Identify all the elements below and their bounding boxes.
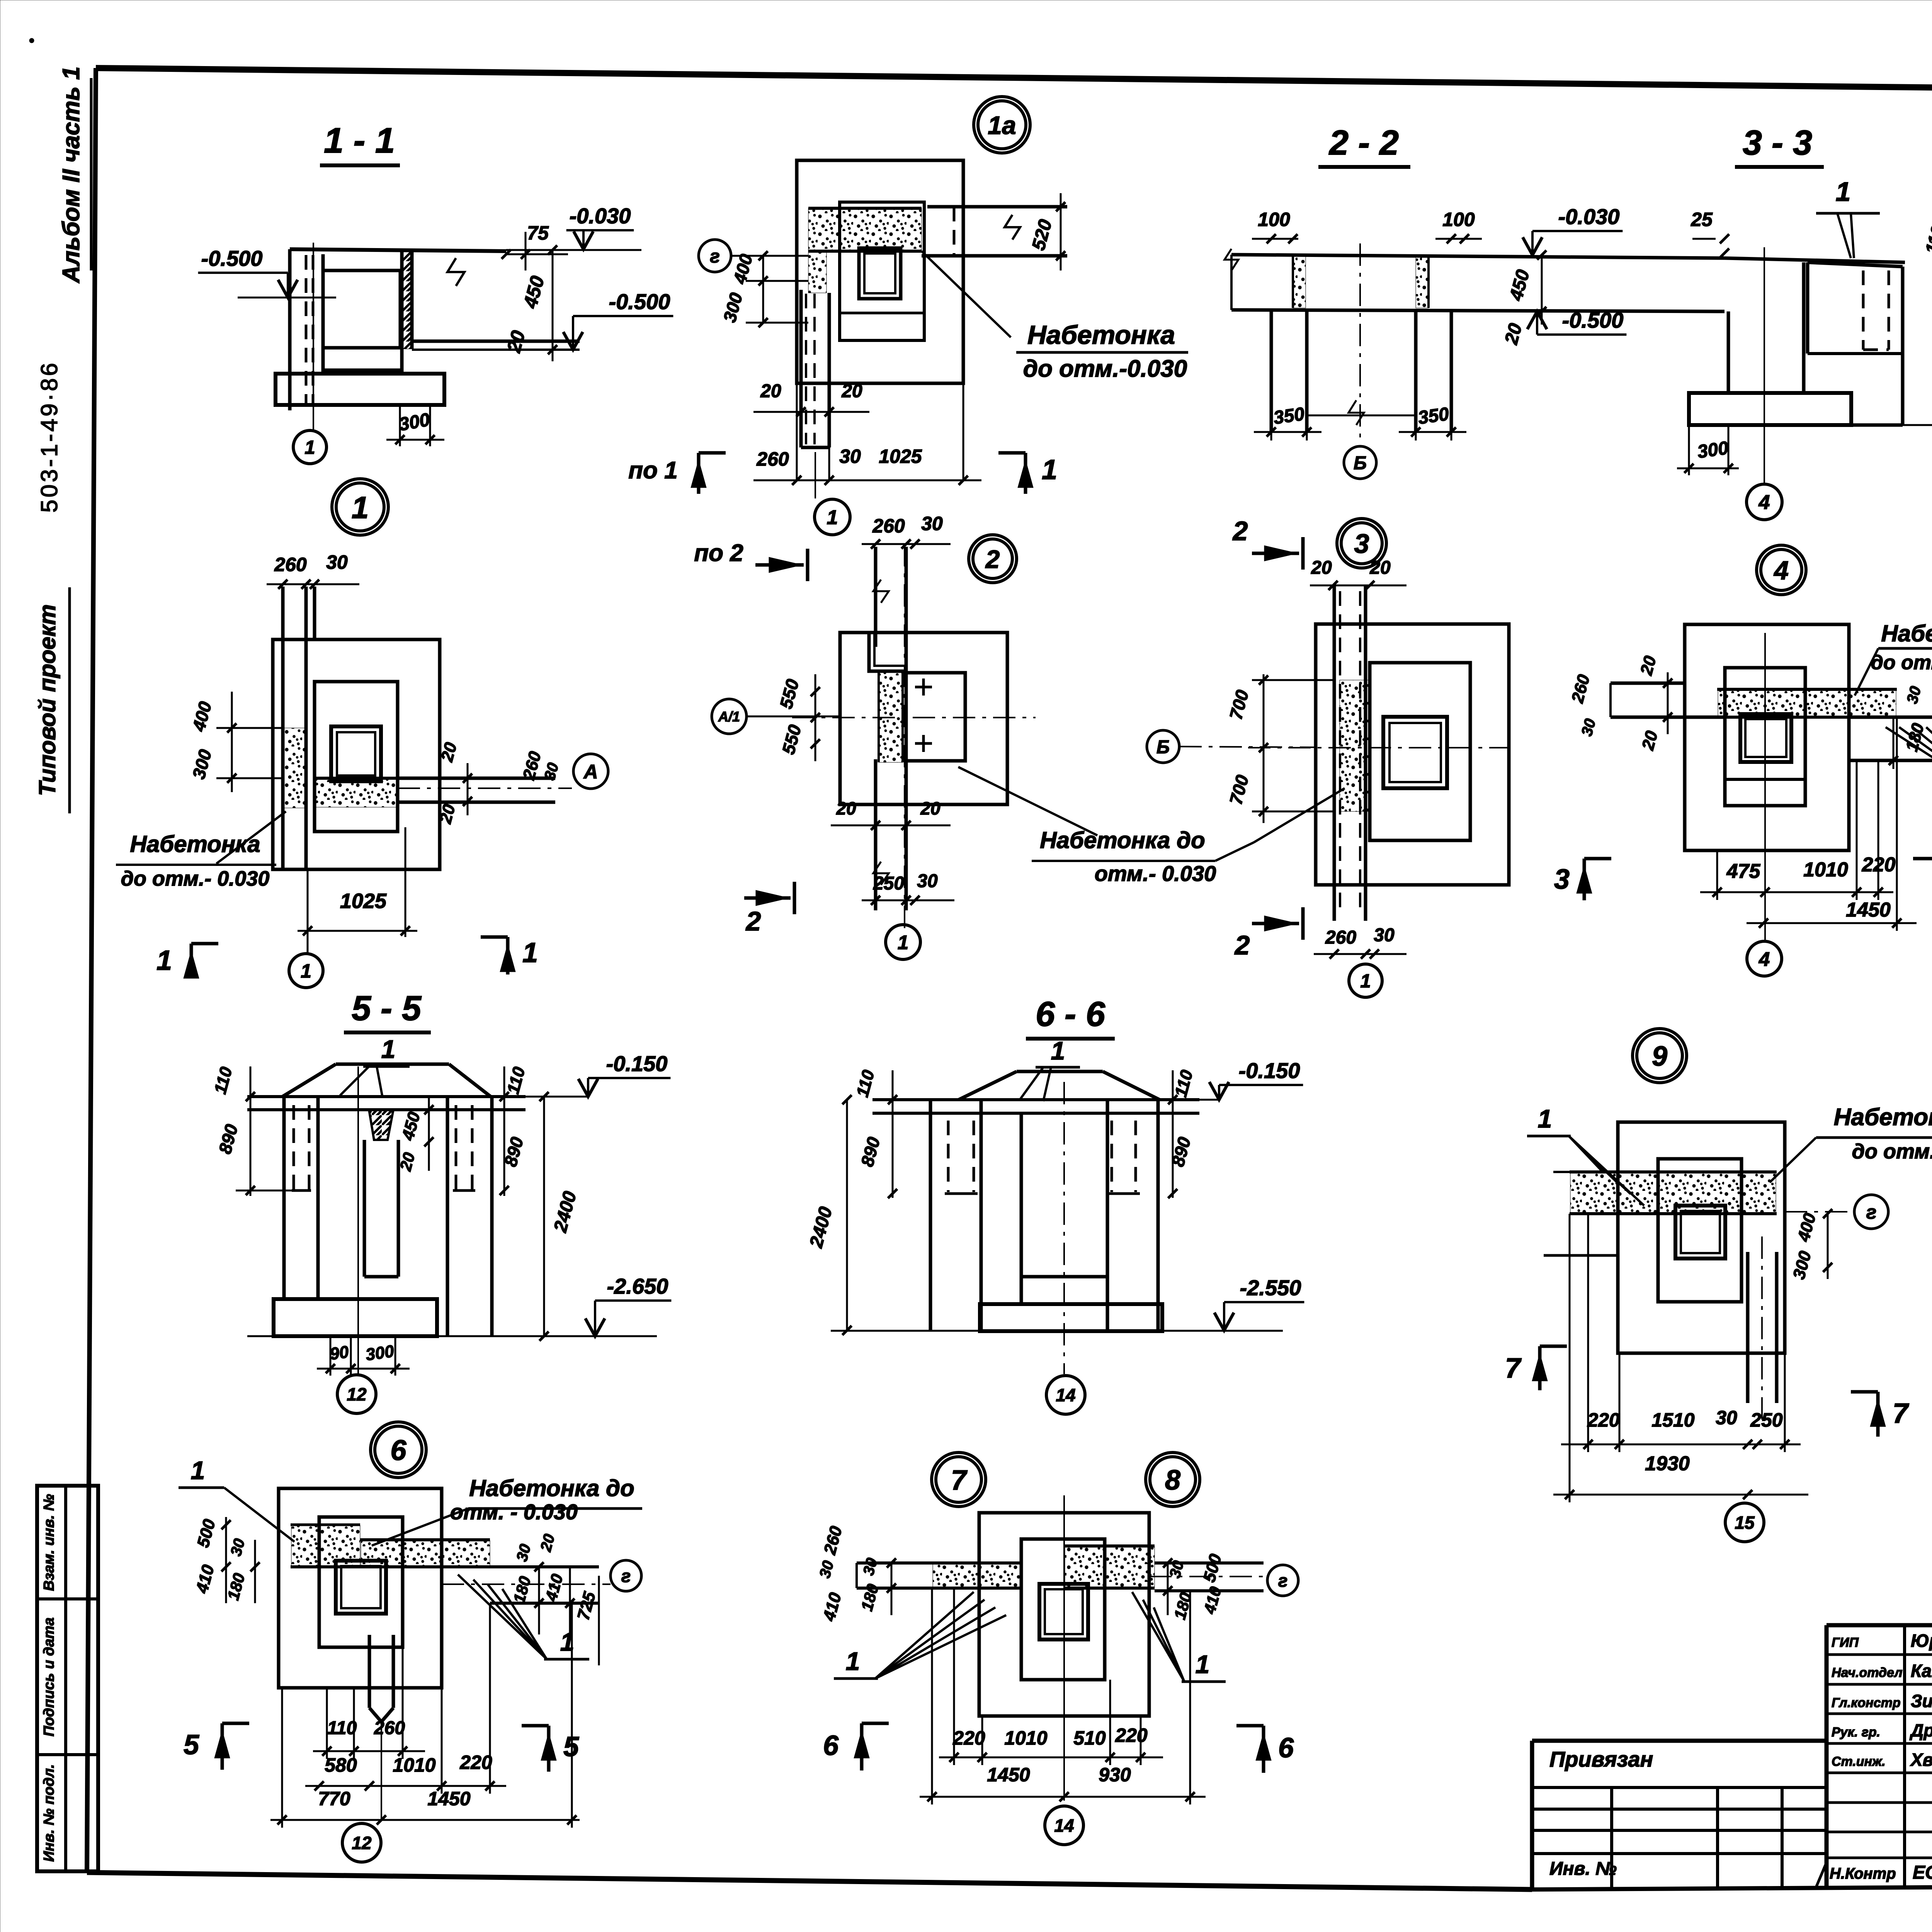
border frame bottom bbox=[87, 1872, 1532, 1889]
svg-text:3: 3 bbox=[1554, 864, 1570, 895]
svg-text:Взам. инв. №: Взам. инв. № bbox=[41, 1494, 57, 1591]
svg-text:1450: 1450 bbox=[1846, 899, 1891, 921]
svg-text:1а: 1а bbox=[988, 111, 1016, 139]
svg-text:350: 350 bbox=[1417, 404, 1450, 429]
svg-text:1010: 1010 bbox=[393, 1754, 435, 1776]
plan detail 9 drawing bbox=[1618, 1122, 1785, 1353]
plan 4 section mark 3 (left) bbox=[1583, 859, 1586, 900]
section mark 1 (right) bbox=[1024, 453, 1027, 494]
svg-text:2: 2 bbox=[1234, 930, 1250, 960]
svg-text:6 - 6: 6 - 6 bbox=[1036, 995, 1105, 1034]
svg-text:2: 2 bbox=[985, 545, 1000, 573]
svg-text:475: 475 bbox=[1726, 860, 1761, 883]
svg-text:4: 4 bbox=[1759, 948, 1770, 970]
border frame left bbox=[87, 68, 96, 1872]
svg-text:г: г bbox=[621, 1566, 631, 1586]
svg-text:14: 14 bbox=[1056, 1385, 1075, 1405]
plan 7-8 section mark 6 (left) bbox=[860, 1723, 864, 1770]
svg-text:Юрин: Юрин bbox=[1911, 1631, 1932, 1651]
svg-text:5 - 5: 5 - 5 bbox=[352, 989, 422, 1028]
svg-text:250: 250 bbox=[1750, 1409, 1783, 1431]
svg-text:4: 4 bbox=[1773, 556, 1789, 585]
svg-text:75: 75 bbox=[527, 222, 549, 244]
svg-text:Инв. № подл.: Инв. № подл. bbox=[41, 1764, 57, 1862]
section 1-1 drawing bbox=[290, 249, 506, 251]
svg-text:2: 2 bbox=[1232, 516, 1248, 546]
detail 1a number bubble bbox=[974, 97, 1030, 153]
svg-text:Рук. гр.: Рук. гр. bbox=[1832, 1725, 1880, 1740]
svg-text:3 - 3: 3 - 3 bbox=[1743, 124, 1812, 162]
svg-text:9: 9 bbox=[1652, 1041, 1667, 1072]
svg-text:20: 20 bbox=[760, 381, 781, 401]
svg-text:260: 260 bbox=[374, 1718, 405, 1738]
svg-text:6: 6 bbox=[823, 1730, 839, 1761]
svg-text:1 - 1: 1 - 1 bbox=[324, 121, 395, 160]
svg-text:Набетонка до: Набетонка до bbox=[469, 1475, 634, 1501]
section 2-2 detail bubble 3 bbox=[1337, 519, 1386, 568]
svg-text:220: 220 bbox=[952, 1727, 985, 1749]
svg-text:Нач.отдел: Нач.отдел bbox=[1832, 1665, 1902, 1680]
svg-text:1: 1 bbox=[1196, 1650, 1210, 1679]
svg-text:260: 260 bbox=[872, 515, 905, 537]
svg-text:1: 1 bbox=[898, 931, 908, 953]
svg-text:25: 25 bbox=[1690, 209, 1713, 230]
svg-text:-0.150: -0.150 bbox=[1239, 1058, 1300, 1083]
svg-text:Гл.констр: Гл.констр bbox=[1832, 1696, 1901, 1710]
svg-text:503-1-49·86: 503-1-49·86 bbox=[36, 361, 62, 513]
svg-text:1010: 1010 bbox=[1004, 1727, 1047, 1749]
svg-text:6: 6 bbox=[390, 1434, 406, 1466]
svg-text:20: 20 bbox=[1369, 558, 1391, 578]
svg-text:30: 30 bbox=[326, 551, 348, 573]
svg-text:100: 100 bbox=[1442, 209, 1475, 230]
svg-text:90: 90 bbox=[328, 1342, 350, 1364]
section 2-2 drawing bbox=[1231, 255, 1725, 258]
svg-text:по 1: по 1 bbox=[628, 457, 677, 484]
plan 1 section mark 1 (right) bbox=[506, 937, 510, 975]
svg-text:Н.Контр: Н.Контр bbox=[1830, 1865, 1896, 1882]
plan detail 6 axis bubble 12 bbox=[342, 1823, 381, 1862]
svg-text:-0.500: -0.500 bbox=[201, 246, 263, 270]
section 1-1 axis bubble 1 bbox=[293, 430, 327, 464]
border frame top bbox=[96, 68, 1932, 95]
plan detail 6 number bubble bbox=[371, 1422, 426, 1478]
svg-text:4: 4 bbox=[1759, 492, 1770, 514]
svg-text:110: 110 bbox=[327, 1718, 357, 1738]
plan 9 section mark 7 (right) bbox=[1876, 1392, 1880, 1437]
svg-text:1010: 1010 bbox=[1803, 859, 1848, 881]
svg-text:6: 6 bbox=[1278, 1733, 1294, 1764]
plan 9 section mark 7 (left) bbox=[1538, 1346, 1542, 1390]
svg-text:1: 1 bbox=[1360, 971, 1371, 992]
svg-text:100: 100 bbox=[1258, 209, 1290, 230]
svg-text:Хвостова: Хвостова bbox=[1910, 1750, 1932, 1770]
svg-text:А/1: А/1 bbox=[718, 709, 740, 724]
svg-text:Инв. №: Инв. № bbox=[1549, 1859, 1617, 1879]
section 5-5 axis bubble 12 bbox=[337, 1375, 376, 1413]
svg-text:1450: 1450 bbox=[987, 1764, 1030, 1786]
svg-text:1: 1 bbox=[827, 507, 838, 529]
svg-text:-0.030: -0.030 bbox=[570, 204, 631, 228]
svg-text:отм.- 0.030: отм.- 0.030 bbox=[1095, 861, 1216, 886]
svg-text:220: 220 bbox=[1587, 1409, 1620, 1431]
svg-text:1450: 1450 bbox=[427, 1788, 470, 1810]
svg-text:-2.650: -2.650 bbox=[607, 1274, 668, 1298]
svg-text:г: г bbox=[1866, 1201, 1877, 1223]
plan 7-8 section mark 6 (right) bbox=[1262, 1726, 1265, 1773]
svg-text:260: 260 bbox=[274, 554, 307, 575]
plan detail 4 number bubble bbox=[1757, 545, 1806, 595]
svg-text:до отм.-0.030: до отм.-0.030 bbox=[1023, 355, 1187, 382]
svg-text:12: 12 bbox=[347, 1384, 367, 1405]
svg-text:-0.500: -0.500 bbox=[609, 289, 670, 314]
svg-text:1: 1 bbox=[1836, 177, 1851, 207]
svg-text:14: 14 bbox=[1054, 1816, 1074, 1836]
svg-text:220: 220 bbox=[459, 1752, 492, 1773]
svg-text:300: 300 bbox=[1696, 438, 1730, 463]
svg-text:2 - 2: 2 - 2 bbox=[1328, 124, 1399, 162]
svg-text:Дружаева: Дружаева bbox=[1909, 1720, 1932, 1740]
svg-text:7: 7 bbox=[951, 1465, 968, 1496]
svg-text:20: 20 bbox=[841, 381, 862, 401]
svg-text:-0.030: -0.030 bbox=[1558, 204, 1620, 229]
svg-text:8: 8 bbox=[1165, 1465, 1180, 1496]
svg-text:Б: Б bbox=[1156, 737, 1170, 757]
svg-text:1: 1 bbox=[1538, 1104, 1552, 1133]
svg-text:Набетонка до: Набетонка до bbox=[1040, 827, 1205, 853]
svg-text:350: 350 bbox=[1272, 404, 1306, 429]
svg-text:5: 5 bbox=[184, 1730, 199, 1760]
svg-text:1: 1 bbox=[522, 937, 538, 968]
plan detail 8 number bubble bbox=[1146, 1452, 1200, 1507]
plan detail 7-8 drawing bbox=[979, 1513, 1149, 1716]
svg-text:30: 30 bbox=[921, 513, 943, 534]
plan detail 9 axis bubble 15 bbox=[1725, 1503, 1764, 1542]
svg-text:2: 2 bbox=[745, 906, 761, 936]
svg-text:1: 1 bbox=[1051, 1036, 1065, 1065]
svg-text:930: 930 bbox=[1099, 1764, 1131, 1786]
detail number 1 (double circle) bbox=[332, 479, 388, 535]
axis bubble А/1 bbox=[712, 699, 747, 734]
section 3-3 axis bubble 4 bbox=[1747, 484, 1782, 520]
plan detail 7-8 axis bubble 14 bbox=[1045, 1806, 1083, 1845]
svg-text:7: 7 bbox=[1505, 1353, 1522, 1384]
svg-text:-0.150: -0.150 bbox=[606, 1051, 668, 1076]
svg-text:г: г bbox=[1278, 1571, 1288, 1591]
svg-text:Привязан: Привязан bbox=[1549, 1747, 1653, 1771]
svg-text:250: 250 bbox=[873, 873, 904, 894]
section mark 2 (bottom left of plan 2) bbox=[744, 896, 791, 900]
svg-text:12: 12 bbox=[352, 1833, 372, 1853]
svg-text:Катков: Катков bbox=[1911, 1661, 1932, 1681]
svg-text:1: 1 bbox=[846, 1647, 860, 1675]
svg-text:510: 510 bbox=[1073, 1727, 1106, 1749]
svg-text:260: 260 bbox=[1325, 927, 1356, 948]
svg-text:1: 1 bbox=[301, 960, 311, 982]
svg-text:по 2: по 2 bbox=[694, 540, 743, 566]
svg-text:до отм.- 0.030: до отм.- 0.030 bbox=[121, 867, 270, 890]
plan detail 3 axis bubble 1 bbox=[1349, 964, 1382, 997]
svg-text:Ст.инж.: Ст.инж. bbox=[1832, 1754, 1886, 1769]
svg-text:30: 30 bbox=[839, 446, 861, 467]
svg-text:580: 580 bbox=[325, 1754, 357, 1776]
svg-text:1: 1 bbox=[1042, 454, 1057, 485]
svg-text:5: 5 bbox=[563, 1731, 579, 1762]
plan detail 2 axis bubble 1 bbox=[886, 925, 920, 959]
plan detail 2 number bubble bbox=[969, 535, 1017, 583]
detail 1a drawing bbox=[797, 160, 963, 383]
plan detail 1 axis bubble 1 bbox=[289, 954, 323, 988]
svg-text:220: 220 bbox=[1115, 1725, 1148, 1746]
svg-text:1025: 1025 bbox=[340, 889, 387, 913]
plan 1 section mark 1 (left) bbox=[190, 944, 193, 977]
section 6-6 axis bubble 14 bbox=[1046, 1376, 1085, 1414]
side stamp box bbox=[37, 1486, 98, 1871]
svg-text:-0.500: -0.500 bbox=[1562, 308, 1624, 332]
svg-text:Зильбертов: Зильбертов bbox=[1911, 1691, 1932, 1711]
svg-text:Набетонка: Набетонка bbox=[1834, 1104, 1932, 1131]
plan 6 section mark 5 (right) bbox=[547, 1726, 551, 1772]
plan detail 9 number bubble bbox=[1633, 1029, 1687, 1083]
svg-text:1: 1 bbox=[381, 1035, 396, 1063]
plan detail 4 drawing bbox=[1685, 624, 1849, 850]
svg-text:1: 1 bbox=[191, 1456, 205, 1485]
svg-text:1930: 1930 bbox=[1645, 1452, 1690, 1475]
svg-text:г: г bbox=[710, 246, 720, 267]
svg-text:1: 1 bbox=[304, 437, 315, 458]
speck top-left bbox=[29, 38, 34, 43]
svg-text:770: 770 bbox=[318, 1788, 350, 1810]
svg-text:Типовой проект: Типовой проект bbox=[34, 604, 60, 796]
svg-text:30: 30 bbox=[917, 871, 938, 891]
svg-text:1: 1 bbox=[156, 945, 172, 976]
svg-text:до отм. -0.030: до отм. -0.030 bbox=[1852, 1140, 1932, 1163]
detail 1a axis bubble 1 bbox=[815, 499, 850, 535]
svg-text:А: А bbox=[583, 760, 598, 782]
svg-text:20: 20 bbox=[920, 798, 940, 818]
svg-text:Б: Б bbox=[1354, 453, 1367, 473]
title block outline bbox=[1530, 1741, 1534, 1889]
svg-text:20: 20 bbox=[836, 798, 856, 818]
svg-text:Подпись и дата: Подпись и дата bbox=[41, 1617, 57, 1736]
svg-text:Альбом II часть 1: Альбом II часть 1 bbox=[58, 66, 85, 284]
svg-text:30: 30 bbox=[1716, 1407, 1737, 1429]
svg-text:20: 20 bbox=[1311, 558, 1332, 578]
svg-text:отм. - 0.030: отм. - 0.030 bbox=[450, 1500, 578, 1524]
svg-text:1: 1 bbox=[352, 490, 369, 525]
svg-text:до отм.- 0.030: до отм.- 0.030 bbox=[1871, 651, 1932, 674]
svg-text:ЕСННА: ЕСННА bbox=[1913, 1862, 1932, 1883]
svg-text:15: 15 bbox=[1735, 1513, 1755, 1533]
svg-text:260: 260 bbox=[756, 448, 789, 470]
svg-text:1025: 1025 bbox=[879, 446, 922, 467]
svg-text:-2.550: -2.550 bbox=[1240, 1276, 1301, 1300]
plan detail 7 number bubble bbox=[932, 1452, 986, 1507]
svg-text:300: 300 bbox=[364, 1342, 395, 1364]
svg-text:Набетонка: Набетонка bbox=[1027, 320, 1175, 350]
svg-text:ГИП: ГИП bbox=[1832, 1635, 1859, 1650]
plan 6 section mark 5 (left) bbox=[221, 1723, 224, 1770]
svg-text:1510: 1510 bbox=[1651, 1409, 1694, 1431]
svg-text:30: 30 bbox=[1374, 925, 1395, 946]
plan detail 4 axis bubble 4 bbox=[1747, 941, 1782, 976]
svg-text:7: 7 bbox=[1893, 1398, 1909, 1429]
svg-text:Набетонка: Набетонка bbox=[1881, 621, 1932, 646]
svg-text:3: 3 bbox=[1354, 529, 1369, 559]
section mark 2 bottom right of plan 2 bbox=[1252, 922, 1299, 925]
